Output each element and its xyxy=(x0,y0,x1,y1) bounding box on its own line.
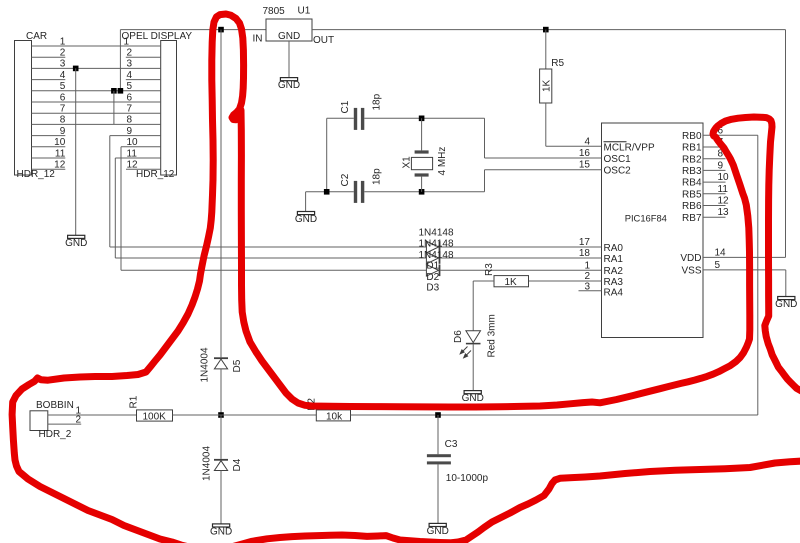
svg-text:12: 12 xyxy=(127,160,139,171)
CAR pin 4 stub xyxy=(32,79,66,81)
svg-text:IN: IN xyxy=(253,34,263,45)
svg-text:D2: D2 xyxy=(426,272,439,283)
diode D3 1N4148 xyxy=(426,265,438,277)
resistor R2 xyxy=(316,410,350,421)
svg-text:1K: 1K xyxy=(542,79,553,92)
RB2 pin stub xyxy=(703,158,726,160)
wire CAR pin 6 to OPEL pin 6 xyxy=(32,101,161,103)
svg-text:13: 13 xyxy=(718,207,730,218)
OPEL pin 4 stub xyxy=(126,79,161,81)
svg-text:PIC16F84: PIC16F84 xyxy=(625,213,667,224)
CAR pin 11 stub xyxy=(32,157,66,159)
junction +5V rail / R5 xyxy=(543,27,549,33)
red annotation freehand loop (inner branch) xyxy=(241,110,800,407)
junction C2 left / ground branch xyxy=(324,189,330,195)
LED arrows xyxy=(460,347,471,358)
svg-text:OPEL DISPLAY: OPEL DISPLAY xyxy=(122,31,193,42)
RB7 pin stub xyxy=(703,216,726,218)
ground symbol (U1) xyxy=(278,78,300,92)
svg-text:CAR: CAR xyxy=(26,31,47,42)
svg-text:RB6: RB6 xyxy=(682,201,702,212)
wire D3 cathode to PIC xyxy=(440,269,601,271)
svg-text:RB1: RB1 xyxy=(682,143,702,154)
OPEL pin 2 stub xyxy=(126,56,161,58)
svg-text:4: 4 xyxy=(127,70,133,81)
wire crystal ground drop xyxy=(305,192,307,212)
svg-text:1: 1 xyxy=(584,260,590,271)
svg-text:GND: GND xyxy=(65,238,87,249)
diode D4 1N4004 xyxy=(220,415,222,459)
svg-text:D3: D3 xyxy=(426,283,439,294)
svg-text:RA4: RA4 xyxy=(604,287,624,298)
svg-text:R5: R5 xyxy=(551,58,564,69)
svg-text:D6: D6 xyxy=(453,330,464,343)
ground symbol (CAR pin3) xyxy=(65,235,87,249)
svg-text:R1: R1 xyxy=(128,395,139,408)
svg-text:15: 15 xyxy=(579,160,591,171)
diode D5 1N4004 xyxy=(214,357,228,359)
svg-text:OSC2: OSC2 xyxy=(604,166,632,177)
wire riser pin1 row to rail / down to pin5 row xyxy=(119,30,121,91)
ground symbol (D4) xyxy=(210,524,232,538)
wire VSS pin right xyxy=(703,269,786,271)
svg-text:C2: C2 xyxy=(340,173,351,186)
wire LED cathode to ground xyxy=(472,344,474,390)
svg-text:D4: D4 xyxy=(232,458,243,471)
junction C1 / X1 top xyxy=(419,116,425,122)
wire OPEL pin11 down xyxy=(114,158,116,258)
wire RB0 to feedback line xyxy=(703,134,758,136)
wire CAR pin 3 to OPEL pin 3 xyxy=(32,67,161,69)
wire D5 anode to bottom rail xyxy=(220,369,222,415)
CAR pin 9 stub xyxy=(32,135,66,137)
diode D1 1N4148 xyxy=(426,241,438,253)
svg-text:18p: 18p xyxy=(372,168,383,185)
wire +5V rail down right edge xyxy=(785,30,787,258)
svg-text:11: 11 xyxy=(718,184,729,195)
svg-text:OSC1: OSC1 xyxy=(604,154,632,165)
svg-text:GND: GND xyxy=(210,527,232,538)
wire RA0 row left segment xyxy=(110,246,427,248)
svg-text:RA3: RA3 xyxy=(604,277,624,288)
junction bottom rail / C3 xyxy=(435,412,441,418)
ground symbol (VSS) xyxy=(775,297,797,311)
microcontroller U2 PIC16F84 xyxy=(602,123,704,338)
svg-text:C1: C1 xyxy=(340,100,351,113)
OPEL pin 12 stub xyxy=(126,168,161,170)
wire into OSC1 xyxy=(485,157,602,159)
svg-text:GND: GND xyxy=(427,526,449,537)
junction pin5 row B xyxy=(118,88,124,94)
wire VDD pin to +5V rail xyxy=(703,256,786,258)
wire C3 to ground xyxy=(437,464,439,523)
svg-text:9: 9 xyxy=(127,126,133,137)
svg-text:RB7: RB7 xyxy=(682,213,702,224)
RB3 pin stub xyxy=(703,169,726,171)
svg-text:R3: R3 xyxy=(484,263,495,276)
OPEL pin 11 wire xyxy=(115,157,160,159)
wire R1 to R2 xyxy=(173,414,317,416)
wire R2 to RB0 feedback xyxy=(351,414,758,416)
svg-text:3: 3 xyxy=(127,59,133,70)
CAR pin 2 stub xyxy=(32,56,66,58)
wire pin3 to ground xyxy=(75,68,77,235)
svg-text:RB3: RB3 xyxy=(682,166,702,177)
svg-text:5: 5 xyxy=(127,81,133,92)
svg-text:7: 7 xyxy=(127,104,133,115)
capacitor C3 xyxy=(437,415,439,454)
ground symbol (C3) xyxy=(427,523,449,537)
svg-text:GND: GND xyxy=(278,80,300,91)
wire RA1 row left segment xyxy=(115,257,426,259)
wire R3 to LED xyxy=(472,281,474,331)
svg-text:3: 3 xyxy=(60,59,66,70)
wire RA2 row left segment xyxy=(121,269,426,271)
svg-text:2: 2 xyxy=(75,415,81,426)
CAR connector J1 xyxy=(15,41,32,176)
OPEL pin 9 wire xyxy=(110,135,161,137)
wire OPEL pin9 down xyxy=(109,136,111,247)
wire CAR pin 7 to OPEL pin 7 xyxy=(32,112,161,114)
svg-text:8: 8 xyxy=(60,115,66,126)
junction bottom rail / D5-D4 xyxy=(218,412,224,418)
wire +5V rail from OUT xyxy=(312,29,786,31)
svg-text:2: 2 xyxy=(60,48,66,59)
svg-text:10: 10 xyxy=(127,137,139,148)
svg-text:4 MHz: 4 MHz xyxy=(437,147,448,176)
svg-text:9: 9 xyxy=(60,126,66,137)
CAR pin 10 stub xyxy=(32,146,66,148)
junction C2 / X1 bottom xyxy=(419,189,425,195)
svg-text:18: 18 xyxy=(579,248,591,259)
svg-text:1: 1 xyxy=(60,36,66,47)
svg-text:D5: D5 xyxy=(232,359,243,372)
svg-text:RB0: RB0 xyxy=(682,131,702,142)
wire U1 GND pin down xyxy=(288,41,290,78)
svg-text:1N4148: 1N4148 xyxy=(419,228,454,239)
wire D4 to ground xyxy=(220,471,222,524)
wire OPEL pin10 down xyxy=(120,147,122,270)
svg-text:RA2: RA2 xyxy=(604,266,624,277)
svg-text:10: 10 xyxy=(54,137,66,148)
svg-text:OUT: OUT xyxy=(313,35,334,46)
wire D2 cathode to PIC xyxy=(440,257,601,259)
svg-text:C3: C3 xyxy=(445,439,458,450)
svg-text:Red 3mm: Red 3mm xyxy=(486,314,497,357)
wire D1 cathode to PIC xyxy=(440,246,601,248)
wire RB0 feedback down right side xyxy=(757,135,759,415)
svg-text:18p: 18p xyxy=(372,93,383,110)
svg-text:HDR_2: HDR_2 xyxy=(39,429,72,440)
wire OSC2 rise xyxy=(484,170,486,192)
wire C1 left to C2 left xyxy=(326,118,328,192)
svg-text:2: 2 xyxy=(127,48,133,59)
svg-text:7: 7 xyxy=(60,104,66,115)
svg-text:D1: D1 xyxy=(426,261,439,272)
svg-text:GND: GND xyxy=(775,299,797,310)
svg-text:GND: GND xyxy=(278,31,300,42)
junction rail / D5 branch xyxy=(218,27,224,33)
svg-text:4: 4 xyxy=(584,136,590,147)
svg-text:100K: 100K xyxy=(143,411,167,422)
resistor R3 xyxy=(529,280,602,282)
svg-text:7805: 7805 xyxy=(263,6,286,17)
svg-text:12: 12 xyxy=(54,160,66,171)
svg-text:11: 11 xyxy=(55,148,66,159)
svg-text:10-1000p: 10-1000p xyxy=(446,473,489,484)
svg-text:6: 6 xyxy=(127,92,133,103)
wire +12V junction down to D5 xyxy=(220,30,222,358)
svg-text:VSS: VSS xyxy=(681,265,701,276)
wire VSS down to ground xyxy=(785,270,787,297)
svg-text:U1: U1 xyxy=(298,6,311,17)
svg-text:X1: X1 xyxy=(402,156,413,169)
svg-text:GND: GND xyxy=(462,393,484,404)
wire pin5 jog to pin8 row xyxy=(113,91,115,125)
svg-text:1: 1 xyxy=(124,37,130,48)
resistor R5 xyxy=(545,30,547,69)
svg-text:2: 2 xyxy=(584,271,590,282)
svg-text:HDR_12: HDR_12 xyxy=(136,169,175,180)
svg-text:1N4148: 1N4148 xyxy=(419,250,454,261)
OPEL DISPLAY connector J2 xyxy=(161,41,177,176)
wire R3 left xyxy=(473,280,494,282)
svg-text:9: 9 xyxy=(718,160,724,171)
svg-text:5: 5 xyxy=(60,81,66,92)
ground symbol (LED) xyxy=(462,391,484,405)
svg-text:RA1: RA1 xyxy=(604,254,624,265)
CAR pin 12 stub xyxy=(32,168,66,170)
svg-text:5: 5 xyxy=(715,260,721,271)
svg-text:RA0: RA0 xyxy=(604,243,624,254)
RB5 pin stub xyxy=(703,193,726,195)
capacitor C1 xyxy=(327,117,354,119)
wire into MCLR pin xyxy=(546,145,602,147)
wire +12V rail to 7805 IN xyxy=(120,29,266,31)
diode D2 1N4148 xyxy=(426,252,438,264)
svg-text:11: 11 xyxy=(127,148,138,159)
wire CAR pin 8 to OPEL pin 8 xyxy=(32,123,161,125)
svg-text:RB4: RB4 xyxy=(682,178,702,189)
LED D6 Red 3mm xyxy=(466,331,481,343)
RB6 pin stub xyxy=(703,205,726,207)
svg-text:12: 12 xyxy=(718,196,730,207)
svg-text:10: 10 xyxy=(718,172,730,183)
svg-text:1N4004: 1N4004 xyxy=(200,347,211,382)
svg-text:6: 6 xyxy=(60,92,66,103)
wire CAR pin 5 to OPEL pin 5 xyxy=(32,90,161,92)
svg-text:BOBBIN: BOBBIN xyxy=(36,400,74,411)
wire R5 to MCLR xyxy=(545,103,547,146)
BOBBIN pin 2 stub xyxy=(48,423,81,425)
svg-text:RB2: RB2 xyxy=(682,154,702,165)
svg-text:HDR_12: HDR_12 xyxy=(17,169,56,180)
svg-text:16: 16 xyxy=(579,148,591,159)
svg-text:1K: 1K xyxy=(505,277,518,288)
voltage regulator U1 7805 xyxy=(266,19,312,41)
BOBBIN connector HDR_2 xyxy=(30,411,48,431)
svg-text:GND: GND xyxy=(295,214,317,225)
junction pin5 row A xyxy=(111,88,117,94)
capacitor C2 xyxy=(306,191,354,193)
svg-text:14: 14 xyxy=(715,247,727,258)
svg-text:MCLR/VPP: MCLR/VPP xyxy=(604,143,655,154)
wire OSC1 drop xyxy=(484,118,486,158)
wire CAR pin 1 to OPEL pin 1 xyxy=(32,45,161,47)
svg-text:1N4004: 1N4004 xyxy=(202,446,213,481)
RB1 pin stub xyxy=(703,146,726,148)
svg-text:VDD: VDD xyxy=(680,253,701,264)
RB4 pin stub xyxy=(703,181,726,183)
wire BOBBIN pin1 to R1 xyxy=(48,414,137,416)
OPEL pin 10 wire xyxy=(121,146,161,148)
ground symbol (crystal) xyxy=(295,212,317,226)
svg-text:8: 8 xyxy=(127,115,133,126)
svg-text:RB5: RB5 xyxy=(682,189,702,200)
resistor R1 xyxy=(137,410,173,421)
svg-text:1N4148: 1N4148 xyxy=(419,239,454,250)
svg-text:17: 17 xyxy=(579,237,591,248)
crystal X1 4 MHz xyxy=(421,118,423,150)
svg-text:4: 4 xyxy=(60,70,66,81)
junction CAR pin3 ground xyxy=(73,66,79,72)
RA4 pin stub xyxy=(579,290,602,292)
svg-text:10k: 10k xyxy=(326,411,343,422)
wire into OSC2 xyxy=(485,169,602,171)
